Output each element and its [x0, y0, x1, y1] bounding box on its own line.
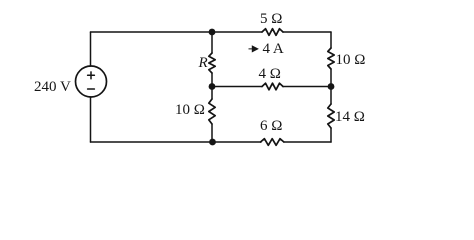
wire branch 10ohm-left upper stub	[211, 87, 213, 100]
voltage source V1 circle	[76, 66, 107, 97]
svg-text:240 V: 240 V	[34, 79, 71, 95]
wire branch R upper stub	[211, 32, 213, 53]
current arrow 4A	[249, 46, 258, 52]
node junction bottom	[209, 139, 216, 146]
voltage source minus sign	[88, 88, 95, 90]
wire bottom rail right segment	[284, 141, 331, 143]
wire branch R lower stub	[211, 73, 213, 87]
svg-text:10 Ω: 10 Ω	[336, 52, 366, 68]
wire left rail lower	[90, 97, 92, 142]
svg-text:14 Ω: 14 Ω	[335, 109, 365, 125]
svg-text:5 Ω: 5 Ω	[260, 11, 282, 27]
voltage source plus sign	[88, 72, 95, 79]
svg-text:4 Ω: 4 Ω	[259, 66, 281, 82]
resistor 14ohm zigzag	[328, 104, 334, 128]
svg-text:10 Ω: 10 Ω	[175, 102, 205, 118]
resistor 5ohm zigzag	[262, 29, 283, 36]
wire top rail right segment	[283, 31, 331, 33]
svg-text:6 Ω: 6 Ω	[260, 118, 282, 134]
node junction middle-left	[209, 83, 216, 90]
resistor 10ohm-right zigzag	[328, 48, 334, 69]
resistor 4ohm zigzag	[262, 83, 283, 90]
wire right rail middle stub	[330, 69, 332, 104]
wire right rail lower stub	[330, 128, 332, 142]
node junction top	[209, 29, 216, 36]
resistor 10ohm-left zigzag	[209, 99, 215, 124]
node junction middle-right	[328, 83, 335, 90]
svg-text:R: R	[198, 55, 208, 71]
wire left rail upper	[90, 32, 92, 66]
wire top rail left segment	[91, 31, 263, 33]
wire middle rail left segment	[212, 86, 262, 88]
svg-text:4 A: 4 A	[263, 41, 284, 57]
wire right rail upper stub	[330, 32, 332, 48]
wire middle rail right segment	[283, 86, 331, 88]
wire branch 10ohm-left lower stub	[211, 124, 213, 142]
wire bottom rail left segment	[91, 141, 262, 143]
resistor 6ohm zigzag	[261, 139, 284, 146]
resistor R zigzag	[209, 53, 215, 73]
